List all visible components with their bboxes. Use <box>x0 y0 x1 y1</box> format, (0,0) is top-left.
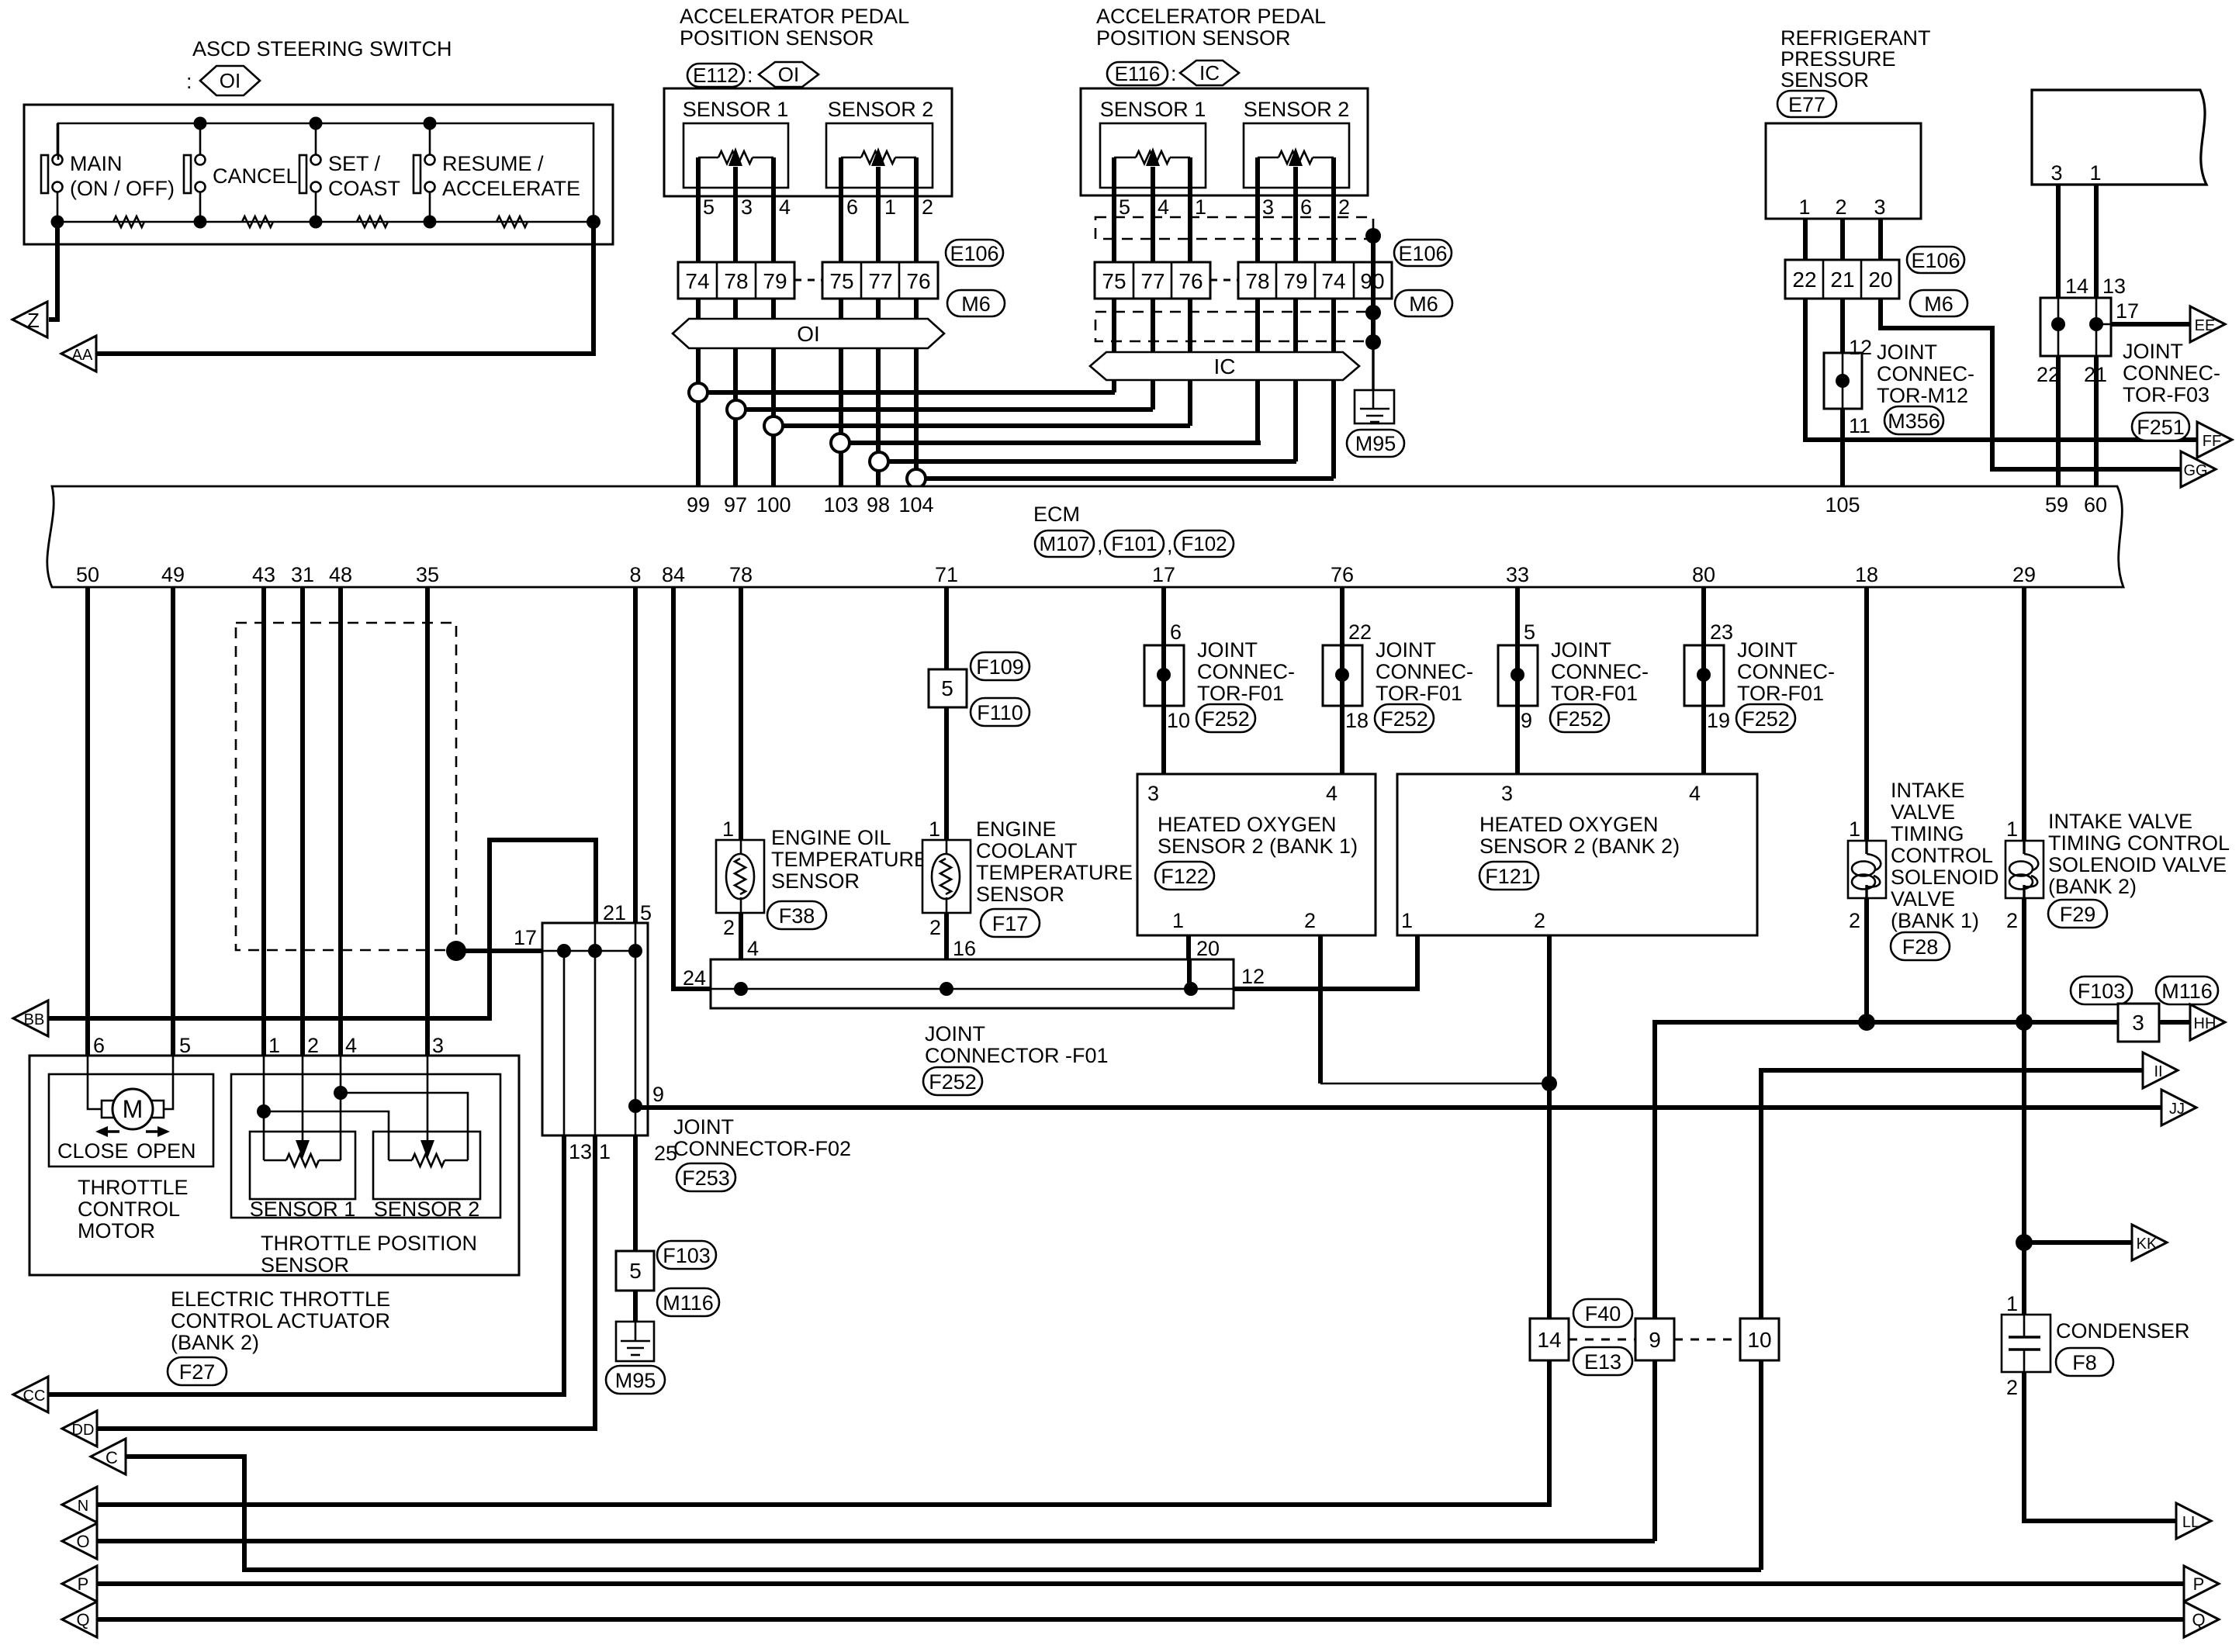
wire ECM 49 to actuator pin5 <box>171 587 175 1056</box>
harness band IC <box>1090 352 1359 380</box>
svg-text:JOINT: JOINT <box>1197 638 1258 662</box>
svg-text:INTAKE VALVE: INTAKE VALVE <box>2048 810 2192 833</box>
ASCD steering switch title <box>192 37 452 60</box>
svg-text:F252: F252 <box>929 1070 977 1094</box>
svg-text:100: 100 <box>756 493 791 517</box>
svg-text:RESUME /: RESUME / <box>442 152 544 175</box>
connector ref F17 <box>981 909 1040 937</box>
connector ref F103 (ground path) <box>657 1241 716 1269</box>
svg-text:F40: F40 <box>1585 1302 1621 1325</box>
ECM label <box>1033 503 1080 526</box>
svg-text:VALVE: VALVE <box>1891 887 1955 911</box>
svg-text:F109: F109 <box>976 655 1024 679</box>
connector ref F38 <box>767 901 826 929</box>
svg-text:1: 1 <box>268 1034 280 1057</box>
svg-text:5: 5 <box>179 1034 191 1057</box>
svg-text:1: 1 <box>1401 909 1413 932</box>
wire 21 through M12 to ECM 105 <box>1840 299 1845 486</box>
connector ref F252 oval (wire 76) <box>1375 704 1434 732</box>
svg-text:ACCELERATE: ACCELERATE <box>442 177 580 200</box>
ground symbol M95 (E116 shield) <box>1355 390 1394 423</box>
TPS sensor1 resistor box <box>250 1132 355 1199</box>
svg-text:78: 78 <box>729 563 753 586</box>
ECM top pin labels <box>687 493 2107 517</box>
sensor box E112 <box>664 88 952 196</box>
intake valve solenoid bank1 label <box>1891 779 1999 932</box>
pin 16 label (F01) <box>953 937 976 960</box>
junction dot HH-solenoid1 <box>1858 1014 1875 1031</box>
svg-text:4: 4 <box>1689 782 1701 805</box>
svg-text:CC: CC <box>23 1388 46 1405</box>
svg-text:F28: F28 <box>1902 935 1939 959</box>
accelerator pedal position sensor E112 title <box>680 5 909 50</box>
wire E116 lead 6 <box>1331 195 1336 479</box>
wire F02 pin1 to DD <box>96 1135 595 1429</box>
svg-text:SENSOR 2 (BANK 1): SENSOR 2 (BANK 1) <box>1158 835 1358 858</box>
connector ref F27 <box>168 1357 227 1385</box>
wire crossover link 1 (OI to IC) <box>698 390 1115 395</box>
svg-text:1: 1 <box>2089 161 2101 185</box>
pin 17 label (F03) <box>2116 299 2139 323</box>
svg-text:2: 2 <box>1849 909 1860 932</box>
svg-text:4: 4 <box>747 937 759 960</box>
svg-text:F110: F110 <box>977 701 1023 724</box>
wire ECM 78 to oil temp sensor <box>739 587 743 959</box>
svg-text:79: 79 <box>1283 269 1307 293</box>
svg-text:CONNECTOR-F02: CONNECTOR-F02 <box>673 1137 851 1160</box>
svg-text:16: 16 <box>953 937 976 960</box>
svg-text:ENGINE OIL: ENGINE OIL <box>771 826 891 849</box>
svg-text:(ON / OFF): (ON / OFF) <box>70 177 175 200</box>
joint connector F252 (wire 76) <box>1323 645 1362 706</box>
svg-text:104: 104 <box>898 493 933 517</box>
shield dashed box lower (E116) <box>1095 312 1373 341</box>
svg-text:VALVE: VALVE <box>1891 800 1955 824</box>
svg-text:Z: Z <box>27 309 40 332</box>
connector ref F40 <box>1573 1299 1632 1327</box>
svg-text:3: 3 <box>1262 195 1274 219</box>
svg-text:F27: F27 <box>179 1360 216 1384</box>
svg-text:CONNEC-: CONNEC- <box>1376 660 1473 683</box>
svg-text:F121: F121 <box>1485 865 1533 888</box>
page connector HH <box>2190 1004 2225 1040</box>
svg-text:F252: F252 <box>1202 707 1250 731</box>
svg-text:6: 6 <box>846 195 858 219</box>
svg-text:N: N <box>78 1498 88 1515</box>
svg-text:14: 14 <box>1537 1328 1561 1352</box>
svg-text:3: 3 <box>432 1034 444 1057</box>
page connector P left <box>62 1566 97 1602</box>
page connector LL <box>2176 1503 2211 1539</box>
svg-text:24: 24 <box>683 966 706 990</box>
wire ECM 43 to actuator pin1 <box>261 587 266 1056</box>
wire E112 lead 4 to ECM <box>839 196 843 486</box>
svg-text:SENSOR 2 (BANK 2): SENSOR 2 (BANK 2) <box>1479 835 1680 858</box>
svg-text:20: 20 <box>1196 937 1220 960</box>
wire crossover link 6 (OI to IC) <box>916 476 1334 481</box>
intake valve timing control solenoid valve bank1 coil F28 <box>1848 817 1886 932</box>
svg-text:F103: F103 <box>2078 980 2126 1003</box>
joint connector F02 box <box>542 923 648 1135</box>
svg-text:75: 75 <box>1102 269 1126 293</box>
svg-text:E106: E106 <box>1398 242 1447 265</box>
wire BB to F02 pin21 bridge <box>49 840 596 1018</box>
svg-text:THROTTLE POSITION: THROTTLE POSITION <box>261 1232 477 1255</box>
wire ECM 80 to joint connector F252 <box>1701 587 1706 774</box>
ECM bottom pin labels <box>76 563 2036 586</box>
connector ref E106 (E112) <box>946 240 1003 266</box>
pin labels E112 <box>703 195 933 219</box>
pin 20 label (F01) <box>1196 937 1220 960</box>
svg-text:2: 2 <box>723 916 735 939</box>
svg-text:79: 79 <box>763 269 787 293</box>
svg-text:KK: KK <box>2137 1236 2158 1253</box>
pin 5 label (F252 wire 33) <box>1524 620 1535 644</box>
connector ref F122 <box>1155 862 1214 890</box>
splice circle 5 <box>870 452 888 471</box>
motor M symbol <box>102 1089 164 1129</box>
svg-text:2: 2 <box>2006 909 2018 932</box>
joint connector F03 box <box>2040 298 2111 356</box>
svg-text:5: 5 <box>941 676 953 700</box>
wire HO2S bank1 pin2 <box>1320 935 1549 1083</box>
svg-text:TOR-F01: TOR-F01 <box>1737 682 1824 705</box>
wire F02 pin9 to JJ <box>635 1105 2161 1110</box>
svg-text::: : <box>747 64 753 87</box>
svg-text:2: 2 <box>2006 1376 2018 1399</box>
svg-text:(BANK 1): (BANK 1) <box>1891 909 1979 932</box>
heated oxygen sensor 2 bank1 box F122 <box>1137 774 1376 935</box>
pin 9 label (F02) <box>652 1083 664 1106</box>
wire 3-box to HH <box>2159 1020 2190 1025</box>
dashed links 14-9-10 <box>1569 1339 1740 1341</box>
svg-text:F101: F101 <box>1111 532 1157 555</box>
joint connector label (F252 wire 33) <box>1551 638 1649 705</box>
svg-text:E106: E106 <box>1911 249 1960 272</box>
motor direction arrows <box>95 1126 170 1137</box>
svg-text:OI: OI <box>797 322 820 346</box>
pin labels E116 <box>1119 195 1350 219</box>
svg-text:1: 1 <box>1172 909 1184 932</box>
svg-text:CONNEC-: CONNEC- <box>1877 362 1974 385</box>
svg-text:CONTROL: CONTROL <box>78 1198 180 1221</box>
svg-text:1: 1 <box>722 817 734 841</box>
page connector EE <box>2190 306 2225 342</box>
svg-text:GG: GG <box>2183 462 2207 479</box>
engine coolant temperature sensor label <box>976 817 1133 906</box>
svg-text:M95: M95 <box>615 1369 656 1392</box>
svg-text:Q: Q <box>76 1610 89 1630</box>
svg-text:78: 78 <box>1245 269 1269 293</box>
svg-text:20: 20 <box>1868 268 1892 292</box>
svg-text:O: O <box>76 1532 89 1551</box>
junction dot TPS pin1 <box>257 1104 271 1118</box>
actuator pin labels 6 5 1 2 4 3 <box>93 1034 444 1057</box>
svg-text:SOLENOID VALVE: SOLENOID VALVE <box>2048 853 2227 876</box>
svg-text:M107: M107 <box>1039 532 1089 555</box>
connector ref F252 oval (wire 80) <box>1736 704 1795 732</box>
pin 12 label (F01 right) <box>1241 965 1265 988</box>
joint connector M12 label <box>1877 340 1974 407</box>
svg-text:F122: F122 <box>1161 865 1209 888</box>
svg-text:ACCELERATOR PEDAL: ACCELERATOR PEDAL <box>1096 5 1326 28</box>
wire E116 lead 3 <box>1188 195 1192 426</box>
svg-text:JOINT: JOINT <box>673 1115 734 1139</box>
pin 19 label (F252 wire 80) <box>1707 709 1730 732</box>
wire E77 pin3 <box>1878 219 1883 260</box>
svg-text:33: 33 <box>1506 563 1529 586</box>
svg-text:2: 2 <box>1338 195 1350 219</box>
connector ref F8 <box>2056 1348 2113 1376</box>
wire box pin1 to F03 pin13 <box>2094 185 2099 298</box>
svg-text:P: P <box>2193 1574 2205 1594</box>
svg-text:CANCEL: CANCEL <box>213 164 298 188</box>
svg-text:59: 59 <box>2045 493 2068 517</box>
svg-text:4: 4 <box>1326 782 1338 805</box>
connector ref E116 with IC hexagon <box>1107 60 1239 85</box>
resistor R4 (ASCD) <box>497 216 528 227</box>
svg-text:TEMPERATURE: TEMPERATURE <box>771 848 928 871</box>
wire ECM 50 to actuator pin6 <box>85 587 90 1056</box>
svg-text:SENSOR: SENSOR <box>261 1253 349 1277</box>
pin 18 label (F252 wire 76) <box>1345 709 1369 732</box>
svg-text:SENSOR 1: SENSOR 1 <box>1100 98 1206 121</box>
wire solenoid bank2 pin2 down <box>2022 898 2026 1315</box>
ASCD steering switch box <box>24 105 613 244</box>
svg-text:1: 1 <box>2006 817 2018 841</box>
svg-text:JOINT: JOINT <box>1737 638 1798 662</box>
throttle position sensor box <box>231 1074 500 1218</box>
wire shield to F02 pin17 <box>456 949 542 953</box>
svg-text:F102: F102 <box>1181 532 1227 555</box>
svg-text:F252: F252 <box>1380 707 1428 731</box>
connector ref F252 (long box) <box>923 1067 982 1095</box>
switch CANCEL <box>184 117 298 229</box>
svg-text:5: 5 <box>640 901 652 924</box>
svg-text:6: 6 <box>93 1034 105 1057</box>
wire E112 lead 1 to ECM <box>696 196 701 486</box>
svg-text:(BANK 2): (BANK 2) <box>171 1331 259 1354</box>
page connector Q left <box>62 1602 97 1637</box>
wire ECM 76 to joint connector F252 <box>1340 587 1344 774</box>
connector ref F29 <box>2048 900 2107 928</box>
pin 23 label (F252 wire 80) <box>1710 620 1733 644</box>
pin labels 13 1 25 (F02 bottom) <box>569 1140 677 1165</box>
ECM connector refs M107 F101 F102 <box>1035 531 1234 557</box>
svg-text:3: 3 <box>1874 195 1885 219</box>
svg-text:22: 22 <box>1792 268 1816 292</box>
svg-text:P: P <box>78 1574 89 1594</box>
svg-text:21: 21 <box>603 901 626 924</box>
svg-text:E106: E106 <box>950 242 998 265</box>
wire supply link sensor1-sensor2 right <box>341 1093 468 1160</box>
connector ref F253 <box>677 1163 735 1191</box>
svg-text::: : <box>186 70 192 93</box>
svg-text:TOR-F01: TOR-F01 <box>1197 682 1284 705</box>
wire actuator pin3 wiper sensor2 <box>420 1056 434 1159</box>
svg-text:M6: M6 <box>961 292 991 316</box>
svg-text:JOINT: JOINT <box>925 1022 985 1045</box>
svg-text:F252: F252 <box>1742 707 1790 731</box>
wire O horizontal <box>96 1539 1655 1543</box>
page connector Z <box>12 302 47 337</box>
wire HH (O branch) <box>1655 1022 2118 1541</box>
resistor R3 (ASCD) <box>357 216 388 227</box>
svg-text:M116: M116 <box>2161 980 2213 1003</box>
svg-text:22: 22 <box>1348 620 1372 644</box>
wire crossover link 5 (OI to IC) <box>879 459 1296 464</box>
wire E77 pin1 <box>1803 219 1808 260</box>
wire to KK <box>2024 1240 2132 1245</box>
svg-text:1: 1 <box>1849 817 1860 841</box>
wire crossover link 4 (OI to IC) <box>840 441 1261 445</box>
svg-text:1: 1 <box>1798 195 1810 219</box>
svg-text:INTAKE: INTAKE <box>1891 779 1965 802</box>
svg-text:3: 3 <box>2132 1011 2144 1035</box>
svg-text:DD: DD <box>72 1422 95 1439</box>
resistor R2 (ASCD) <box>242 216 273 227</box>
ASCD internal bottom rail <box>57 221 593 223</box>
wire E116 lead 4 <box>1255 195 1260 443</box>
svg-text:2: 2 <box>922 195 933 219</box>
connector box 9 (F40/E13) <box>1635 1318 1674 1360</box>
svg-text:99: 99 <box>687 493 710 517</box>
svg-text:78: 78 <box>724 269 748 293</box>
svg-text:18: 18 <box>1345 709 1369 732</box>
svg-text:31: 31 <box>291 563 314 586</box>
svg-text:EE: EE <box>2195 317 2216 334</box>
pin 22 label (F252 wire 76) <box>1348 620 1372 644</box>
connector row cells 78 79 74 90 (E116 side) <box>1238 262 1392 299</box>
connector row cells 75 77 76 (E116 side) <box>1095 262 1210 299</box>
splice circle 3 <box>764 416 783 435</box>
svg-text:CONTROL ACTUATOR: CONTROL ACTUATOR <box>171 1309 390 1332</box>
svg-text:77: 77 <box>1140 269 1164 293</box>
joint connector F02 label <box>673 1115 851 1160</box>
wire F03 pin22 to ECM 59 <box>2056 356 2061 486</box>
svg-text:F252: F252 <box>1556 707 1604 731</box>
wire F01 pin12 to HO2S bank2 pin1 <box>1234 935 1417 989</box>
page connector GG <box>2181 451 2216 487</box>
page connector O <box>62 1523 97 1559</box>
pin 11 label (M12) <box>1849 414 1870 437</box>
svg-text:5: 5 <box>1119 195 1130 219</box>
wire HO2S bank1 pin1 to F01 pin20 <box>1189 935 1189 989</box>
svg-text:12: 12 <box>1849 336 1872 359</box>
page connector N <box>62 1487 97 1522</box>
svg-text:F29: F29 <box>2060 903 2096 926</box>
svg-text:10: 10 <box>1167 709 1190 732</box>
svg-text:35: 35 <box>416 563 439 586</box>
connector ref E106 (E77) <box>1907 247 1964 273</box>
throttle control motor label <box>78 1176 189 1242</box>
sensor box E77 <box>1766 123 1921 219</box>
svg-text:TOR-M12: TOR-M12 <box>1877 384 1968 407</box>
svg-text:5: 5 <box>629 1259 642 1283</box>
svg-text:ELECTRIC THROTTLE: ELECTRIC THROTTLE <box>171 1287 390 1311</box>
ASCD internal top rail <box>58 123 593 222</box>
svg-text:E77: E77 <box>1788 93 1825 116</box>
svg-text:23: 23 <box>1710 620 1733 644</box>
svg-text:F8: F8 <box>2072 1351 2097 1374</box>
connector ref F28 <box>1891 932 1950 960</box>
svg-text:MAIN: MAIN <box>70 152 123 175</box>
svg-text:F17: F17 <box>992 912 1029 935</box>
svg-text:SENSOR 2: SENSOR 2 <box>828 98 934 121</box>
svg-text:SENSOR 1: SENSOR 1 <box>683 98 789 121</box>
svg-text:,: , <box>1167 534 1173 557</box>
pin 4 label (F01) <box>747 937 759 960</box>
wire II (C branch) <box>1761 1070 2143 1570</box>
electric throttle control actuator box <box>29 1056 519 1275</box>
connector row E106/M6 (E112 side) cells 74 78 79 <box>678 262 794 299</box>
svg-text:POSITION SENSOR: POSITION SENSOR <box>680 26 874 50</box>
svg-text:9: 9 <box>1649 1328 1661 1352</box>
svg-text:F103: F103 <box>663 1244 711 1267</box>
svg-text:1: 1 <box>1195 195 1206 219</box>
svg-text:CONNEC-: CONNEC- <box>2123 361 2220 385</box>
svg-text:49: 49 <box>161 563 185 586</box>
shield dashed box upper (E116) <box>1095 217 1373 239</box>
svg-text:5: 5 <box>1524 620 1535 644</box>
wire MAIN output to Z <box>49 222 57 320</box>
page connector P right <box>2184 1566 2219 1602</box>
svg-text:1: 1 <box>884 195 896 219</box>
ECM band <box>47 486 2123 587</box>
svg-text:ASCD STEERING SWITCH: ASCD STEERING SWITCH <box>192 37 452 60</box>
page connector FF <box>2197 422 2232 458</box>
switch SET/COAST <box>299 117 400 229</box>
wire F03 pin17 to EE <box>2111 322 2190 327</box>
engine oil temperature sensor label <box>771 826 928 893</box>
svg-text:4: 4 <box>345 1034 357 1057</box>
wire ASCD right output to AA <box>96 222 593 354</box>
svg-text:CONNEC-: CONNEC- <box>1197 660 1295 683</box>
wire crossover link 2 (OI to IC) <box>736 407 1153 412</box>
svg-text:17: 17 <box>2116 299 2139 323</box>
svg-text:2: 2 <box>1304 909 1316 932</box>
dashed link between connector halves (E112) <box>794 279 822 282</box>
wire 20 to GG <box>1881 299 2181 469</box>
wire ECM 33 to joint connector F252 <box>1515 587 1520 774</box>
svg-text:9: 9 <box>1521 709 1532 732</box>
joint connector F252 (wire 17) <box>1144 645 1184 706</box>
wire 22 to FF <box>1805 299 2197 440</box>
svg-text:SENSOR: SENSOR <box>976 883 1064 906</box>
joint connector label (F252 wire 17) <box>1197 638 1295 705</box>
joint connector F03 label <box>2123 340 2220 406</box>
wire C horizontal <box>125 1457 1761 1570</box>
svg-text:F251: F251 <box>2137 416 2185 439</box>
intake valve timing control solenoid valve bank2 coil F29 <box>2005 817 2043 932</box>
svg-text:5: 5 <box>703 195 715 219</box>
svg-text:M6: M6 <box>1409 292 1438 316</box>
svg-text:13: 13 <box>2102 275 2126 298</box>
svg-text:HH: HH <box>2194 1015 2217 1032</box>
joint connector F252 (wire 33) <box>1498 645 1538 706</box>
svg-text:CLOSE: CLOSE <box>57 1139 129 1163</box>
svg-text:2: 2 <box>307 1034 319 1057</box>
svg-text:M: M <box>123 1095 144 1123</box>
resistor R1 (ASCD) <box>113 216 144 227</box>
pin 17 label (F02) <box>514 926 537 949</box>
wire E116 lead 1 <box>1112 195 1116 392</box>
svg-text:21: 21 <box>1830 268 1854 292</box>
joint connector F252 (wire 80) <box>1684 645 1724 706</box>
pin 6 label (F252 wire 17) <box>1170 620 1182 644</box>
wire HO2S bank2 pin2 to N <box>96 935 1549 1505</box>
svg-text:SOLENOID: SOLENOID <box>1891 866 1999 889</box>
